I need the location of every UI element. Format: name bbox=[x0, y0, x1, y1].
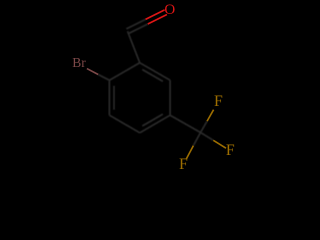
bond C7-C1 aldehyde to ring bbox=[128, 31, 140, 63]
ring inner double-bond line C6-C1 bbox=[142, 70, 163, 82]
ring inner double-bond line C2-C3 bbox=[113, 86, 115, 110]
bond C8-F2 right: carbon half bbox=[201, 133, 214, 141]
bond C8-F1 top: fluorine half bbox=[207, 110, 214, 121]
bond C2-Br: bromine half bbox=[87, 69, 98, 75]
ring bond C6-C1 bbox=[140, 63, 170, 80]
svg-text:O: O bbox=[164, 2, 175, 18]
ring bond C2-C3 bbox=[108, 80, 110, 115]
svg-text:F: F bbox=[214, 93, 223, 110]
molecule: 2-bromo-5-(trifluoromethyl)benzaldehyde skeletal structure, black background bbox=[0, 0, 300, 176]
bond C7=O line 1: oxygen half bbox=[146, 10, 165, 20]
ring bond C3-C4 bbox=[109, 115, 139, 133]
ring inner double-bond line C4-C5 bbox=[142, 114, 163, 126]
svg-text:Br: Br bbox=[72, 55, 86, 70]
bond C8-F3 bottom: fluorine half bbox=[186, 146, 193, 159]
svg-text:F: F bbox=[179, 156, 188, 173]
bond C7=O line 2: oxygen half bbox=[148, 15, 167, 25]
ring bond C1-C2 bbox=[109, 63, 139, 80]
ring bond C4-C5 bbox=[140, 115, 170, 133]
bond C7=O line 1: carbon half bbox=[126, 19, 145, 29]
bond C2-Br: carbon half bbox=[98, 75, 109, 81]
svg-text:F: F bbox=[226, 142, 235, 159]
bond C8-F1 top: carbon half bbox=[201, 121, 208, 132]
bond C5-C8 ring to CF3 carbon bbox=[170, 115, 200, 132]
bond C8-F2 right: fluorine half bbox=[213, 140, 226, 148]
ring bond C5-C6 bbox=[169, 80, 171, 115]
bond C8-F3 bottom: carbon half bbox=[193, 133, 200, 146]
bond C7=O line 2: carbon half bbox=[129, 24, 148, 34]
